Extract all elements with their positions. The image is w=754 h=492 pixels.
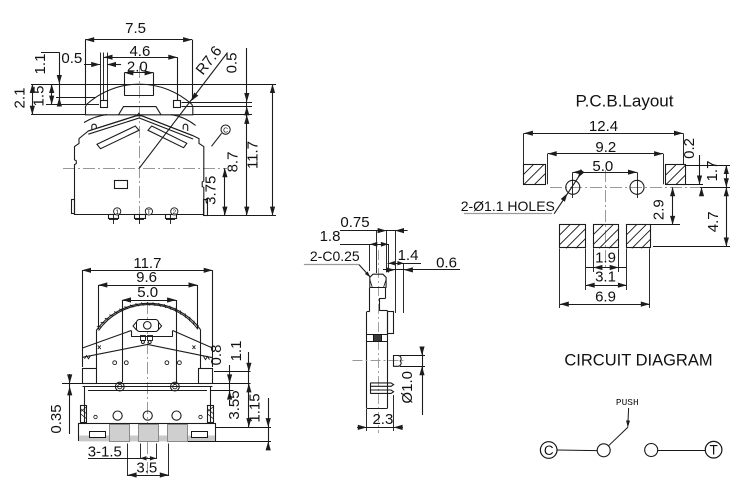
foot terminal: [139, 425, 159, 442]
platform side L: [131, 331, 133, 337]
dim 0.35 line: [69, 374, 71, 434]
plus mark: [170, 215, 172, 224]
ext x386.6: [386, 231, 388, 272]
wire center rect bottom: [124, 95, 153, 97]
wire centerline-V frontview: [147, 302, 149, 476]
ext cap bottom right: [193, 114, 252, 116]
body inner rect: [115, 181, 128, 189]
ext y371.8: [214, 371, 251, 373]
leader to circle-C: [212, 133, 222, 146]
terminal T circle: [705, 441, 722, 458]
right strip: [388, 312, 394, 334]
zigzag L: [85, 356, 91, 359]
ext 1.9 L: [593, 248, 595, 272]
dim 2.3 line: [357, 427, 403, 429]
chevron slot left: [97, 126, 139, 149]
dim 0.2 line b: [701, 187, 703, 196]
line y390: [88, 390, 207, 392]
peak marker: [136, 112, 142, 116]
upper body L: [369, 288, 371, 312]
svg-text:0.35: 0.35: [48, 404, 65, 433]
fork prong 2: [370, 390, 393, 393]
dim 4.7 line: [726, 187, 728, 246]
svg-text:6.9: 6.9: [595, 289, 616, 306]
ext 1.7 top: [686, 165, 730, 167]
svg-text:7.5: 7.5: [125, 20, 146, 37]
small hole: [178, 361, 182, 365]
tab 2: [135, 215, 146, 219]
dim 0.2 line a: [699, 155, 701, 185]
plus mark: [113, 215, 115, 224]
dome serration ticks: [97, 326, 101, 328]
svg-text:3.1: 3.1: [595, 269, 616, 286]
dim 6.9 line: [560, 304, 650, 306]
dim 2.1 line: [32, 84, 34, 115]
ext 3-1.5 a: [140, 444, 142, 460]
ext line y97.5: [56, 97, 95, 99]
washer square L: [141, 336, 146, 341]
ext 3.5 a: [127, 444, 129, 477]
pad top-right: [666, 165, 686, 185]
ext pin bottom: [400, 366, 425, 368]
washer band stub L: [84, 115, 107, 123]
dim dia1.0 line: [422, 349, 424, 415]
stem base: [370, 287, 386, 289]
ext 4.6 right: [177, 57, 179, 101]
svg-text:2: 2: [172, 209, 176, 216]
dim 1.1 line: [59, 52, 61, 101]
knob wing R: [158, 322, 162, 330]
ext cap bottom left: [31, 114, 86, 116]
nub left: [92, 124, 97, 130]
body side L: [96, 331, 98, 369]
dim 3-1.5 line: [88, 458, 156, 460]
leg right: [204, 200, 208, 216]
dim 1.1-3.55 line: [248, 352, 250, 427]
x-mark R: [192, 346, 195, 350]
dim 0.5R-8.7 line: [246, 48, 248, 216]
svg-text:C: C: [223, 127, 228, 134]
step L: [367, 311, 370, 313]
hole right: [630, 180, 644, 194]
tiny dot L: [94, 415, 97, 418]
dim 3.75 line: [224, 168, 226, 215]
tab 3: [166, 215, 177, 219]
dim 12.4 line: [524, 133, 683, 135]
pad bottom-mid: [594, 225, 619, 248]
side bottom: [367, 408, 388, 410]
ext 6.9 R: [649, 248, 651, 308]
hatch leg R: [208, 406, 214, 423]
wire center rect right: [153, 73, 155, 96]
svg-text:3.75: 3.75: [202, 176, 219, 205]
svg-text:1.4: 1.4: [398, 247, 419, 264]
ext x388.4: [388, 244, 390, 272]
wire centerline-H pcb: [550, 187, 700, 189]
tab 1: [109, 215, 119, 219]
svg-text:CIRCUIT DIAGRAM: CIRCUIT DIAGRAM: [564, 352, 712, 370]
wire centerline-H side: [353, 360, 405, 362]
ext p5.0 L: [572, 172, 574, 198]
pivot ring R inner: [173, 384, 177, 388]
ext 9.6 R: [197, 285, 199, 328]
ext y441.4: [188, 441, 271, 443]
dim 3.5 line: [128, 475, 169, 477]
ext 1.7 bot: [703, 187, 730, 189]
washer dot R: [148, 341, 151, 344]
pivot ring L inner: [118, 384, 122, 388]
dim 1.5 line: [51, 84, 53, 105]
ext 2.9 bot: [650, 224, 680, 226]
wire centerline-V pcb: [605, 170, 607, 268]
ext p5.0 R: [637, 172, 639, 198]
push arrow: [626, 420, 630, 427]
svg-text:1.9: 1.9: [595, 250, 616, 267]
ext 6.9 L: [559, 248, 561, 308]
ext y102: [182, 102, 253, 104]
dim 2.0 line: [124, 72, 153, 74]
switch arm: [609, 427, 629, 446]
svg-text:4.7: 4.7: [705, 211, 722, 232]
pad top-left: [524, 165, 546, 185]
bottom hole: [172, 411, 181, 420]
dim 2.9 line: [672, 187, 674, 225]
dim 0.5L line seg2: [107, 64, 121, 66]
notch side: [379, 298, 381, 311]
dim 9.2 line: [548, 153, 663, 155]
gray underline holes: [464, 213, 552, 215]
pad bottom-left: [560, 225, 586, 248]
svg-text:1.7: 1.7: [704, 161, 721, 182]
flange rect: [79, 424, 216, 441]
dim 1.8 line: [340, 244, 389, 246]
mid body side L: [84, 386, 86, 423]
washer plate top: [83, 383, 213, 385]
svg-text:8.7: 8.7: [225, 152, 242, 173]
platform side R: [172, 331, 174, 337]
svg-text:0.2: 0.2: [681, 138, 698, 159]
upper body R: [385, 288, 387, 298]
washer chevron upper: [83, 331, 213, 349]
cap center hump: [119, 107, 162, 115]
wire centerline-V side: [378, 250, 380, 433]
dim 4.6 line: [104, 57, 178, 59]
svg-text:3.5: 3.5: [136, 460, 157, 477]
ext f11.7 R: [212, 270, 214, 367]
ext 7.5 right: [192, 40, 194, 100]
svg-text:T: T: [709, 443, 717, 458]
wire centerline-H topview: [63, 168, 227, 170]
ext x403.9: [403, 263, 405, 313]
leader holes: [554, 172, 582, 214]
pin side: [394, 355, 402, 366]
ext 4.7 bot: [653, 246, 730, 248]
tiny dot R: [199, 415, 202, 418]
svg-text:0.5: 0.5: [223, 53, 240, 74]
terminal circle T: [145, 208, 152, 215]
ext line y104.6: [46, 104, 99, 106]
wire ref line y84: [31, 84, 276, 86]
ext x376: [376, 231, 378, 273]
dim 1.9 line: [586, 267, 626, 269]
ext 0.8: [211, 390, 234, 392]
svg-text:Ø1.0: Ø1.0: [399, 371, 416, 404]
platform bottom: [131, 336, 173, 338]
ext 0.2 a: [686, 184, 703, 186]
dim 1.7 line: [726, 165, 728, 187]
ext 3.5 b: [168, 444, 170, 477]
dim 5.0 line: [122, 300, 176, 302]
push lead line: [627, 408, 630, 427]
washer square R: [148, 336, 153, 341]
dome outer arc: [96, 303, 200, 330]
knob: [137, 320, 159, 332]
notch top: [379, 298, 385, 300]
circle-C mark: [221, 125, 230, 134]
ext 3.1 L: [585, 248, 587, 290]
x-mark L: [98, 346, 101, 350]
hole left: [566, 180, 580, 194]
dim 9.6 line: [98, 285, 197, 287]
svg-text:3.55: 3.55: [226, 390, 243, 419]
plus mark: [139, 215, 141, 224]
ext 12.4 L: [523, 133, 525, 164]
ext 9.2 R: [663, 154, 665, 185]
fork prong 1: [370, 383, 393, 386]
terminal C circle: [540, 442, 557, 459]
svg-text:12.4: 12.4: [589, 118, 618, 135]
dim 1.4 line: [388, 263, 421, 265]
ext y383.4: [213, 383, 251, 385]
zigzag R: [204, 356, 210, 359]
svg-text:5.0: 5.0: [137, 284, 158, 301]
svg-text:1.1: 1.1: [228, 341, 245, 362]
wire pole to T: [658, 450, 706, 452]
svg-text:2.3: 2.3: [372, 411, 393, 428]
stem outline: [370, 274, 386, 288]
terminal circle 2: [171, 208, 178, 215]
ext 0.35 a: [62, 383, 83, 385]
washer chevron lower: [83, 344, 213, 357]
svg-text:11.7: 11.7: [245, 141, 262, 169]
small hole: [113, 361, 117, 365]
dim 7.5 line: [85, 39, 192, 41]
pivot ring R outer: [171, 382, 180, 391]
ext 0.5L vert: [107, 53, 109, 101]
wire C to pole: [557, 449, 597, 452]
nub right: [183, 124, 188, 131]
fork base: [370, 383, 372, 394]
ext 0.5L vert: [100, 53, 102, 101]
washer band stub R: [171, 115, 196, 126]
body L side: [366, 312, 368, 408]
foot terminal: [168, 425, 188, 442]
radius line R7.6: [139, 53, 227, 169]
knob wing L: [133, 322, 137, 330]
body side R: [200, 329, 202, 368]
svg-text:2-C0.25: 2-C0.25: [310, 248, 360, 264]
small hole: [165, 361, 169, 365]
washer plate bottom: [83, 386, 213, 388]
ext f11.7 L: [82, 270, 84, 367]
stem chamfer line L: [370, 280, 373, 288]
ext 0.2 b: [700, 187, 703, 189]
pad bottom-right: [627, 225, 651, 248]
svg-text:C: C: [544, 443, 554, 458]
pole circle right: [645, 444, 658, 457]
leader 2-C0.25: [359, 265, 370, 277]
gray underline 2-C0.25: [304, 264, 359, 266]
ext x369.8: [369, 244, 371, 271]
dim 0.5L line seg1: [84, 64, 100, 66]
svg-text:P.C.B.Layout: P.C.B.Layout: [576, 92, 674, 111]
svg-text:2-Ø1.1 HOLES: 2-Ø1.1 HOLES: [461, 198, 555, 214]
dim 0.8 line: [229, 365, 231, 399]
hatch leg L: [81, 406, 87, 423]
band top: [367, 334, 388, 336]
svg-text:1.8: 1.8: [320, 228, 341, 245]
ext 7.5 left: [85, 40, 87, 104]
cross at 388: [386, 270, 391, 272]
dim f11.7 line: [82, 270, 213, 272]
band bottom: [367, 341, 388, 343]
bottom hole: [113, 411, 122, 420]
foot terminal: [110, 425, 130, 442]
ext x395: [395, 231, 397, 313]
pivot ring L outer: [115, 382, 124, 391]
cap outline: [86, 84, 193, 115]
ext y427.1: [216, 427, 271, 429]
ext 2.3 L: [366, 409, 368, 432]
svg-text:0.75: 0.75: [340, 214, 369, 231]
body outline topview: [75, 115, 204, 215]
wire centerline-V topview: [139, 66, 141, 223]
dim 11.7 line: [272, 84, 274, 216]
ext 3-1.5 b: [156, 444, 158, 460]
bottom hole: [143, 411, 152, 420]
cap square right: [174, 101, 181, 108]
dim 0.6 line: [383, 269, 460, 271]
dim 0.75 line: [340, 230, 408, 232]
ext 5.0 R: [176, 300, 178, 382]
svg-text:2.9: 2.9: [651, 199, 668, 220]
ext 1.1 top: [41, 52, 60, 54]
pole circle left: [597, 444, 610, 457]
notch bottom: [379, 310, 387, 312]
mid body side R: [210, 386, 212, 423]
leg left: [72, 200, 75, 214]
svg-text:1: 1: [115, 209, 119, 216]
ext 9.2 L: [547, 154, 549, 185]
wire center rect left: [124, 73, 126, 96]
contact rivet: [374, 335, 382, 342]
ext 5.0 L: [122, 300, 124, 382]
cap square left: [101, 101, 108, 108]
washer dot L: [141, 341, 144, 344]
small hole: [124, 361, 128, 365]
shoulder box R: [199, 369, 213, 384]
ext 9.6 L: [98, 285, 100, 329]
svg-text:0.8: 0.8: [208, 345, 225, 366]
svg-text:PUSH: PUSH: [616, 397, 639, 408]
dim 1.15 line: [268, 398, 270, 450]
terminal circle 1: [114, 208, 121, 215]
body fold line: [88, 115, 193, 139]
flange rect R: [192, 432, 208, 438]
svg-text:1.15: 1.15: [247, 393, 264, 422]
dim 3.1 line: [586, 285, 627, 287]
ext 3.1 R: [626, 248, 628, 290]
ext 1.9 R: [618, 248, 620, 272]
flange rect L: [90, 432, 106, 438]
shoulder box L: [83, 369, 97, 384]
svg-text:1.1: 1.1: [32, 54, 49, 75]
chevron slot right: [148, 126, 187, 148]
svg-text:2.1: 2.1: [12, 88, 29, 109]
ext bottom right: [205, 215, 276, 217]
ext 0.5L vert: [103, 53, 105, 101]
ext y106.4: [182, 106, 253, 108]
svg-text:T: T: [147, 209, 151, 216]
stem chamfer line R: [383, 280, 386, 288]
svg-text:0.5: 0.5: [61, 50, 82, 67]
ext 12.4 R: [683, 133, 685, 164]
dome inner arc: [99, 305, 199, 331]
dim p5.0 line: [573, 172, 637, 174]
knob circle: [144, 322, 152, 330]
ext pin top: [400, 355, 425, 357]
body R side: [387, 311, 389, 408]
ext 2.3 R: [393, 395, 395, 431]
